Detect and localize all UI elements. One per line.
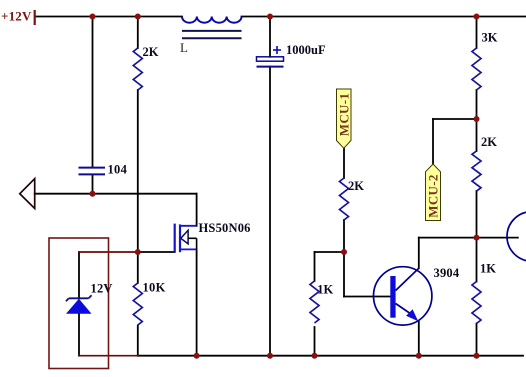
svg-text:3904: 3904 xyxy=(434,266,460,280)
svg-text:2K: 2K xyxy=(143,45,159,59)
svg-text:L: L xyxy=(180,40,188,55)
svg-text:MCU-2: MCU-2 xyxy=(426,174,441,217)
svg-text:2K: 2K xyxy=(481,135,497,149)
svg-text:1000uF: 1000uF xyxy=(286,43,326,57)
svg-text:3K: 3K xyxy=(482,31,498,45)
svg-text:HS50N06: HS50N06 xyxy=(199,221,251,235)
svg-text:2K: 2K xyxy=(348,179,364,193)
svg-text:12V: 12V xyxy=(91,282,113,296)
svg-text:10K: 10K xyxy=(143,281,166,295)
svg-text:104: 104 xyxy=(108,163,128,177)
svg-text:+12V: +12V xyxy=(1,9,32,24)
svg-text:MCU-1: MCU-1 xyxy=(336,93,351,136)
svg-text:1K: 1K xyxy=(480,262,496,276)
svg-text:1K: 1K xyxy=(317,283,333,297)
